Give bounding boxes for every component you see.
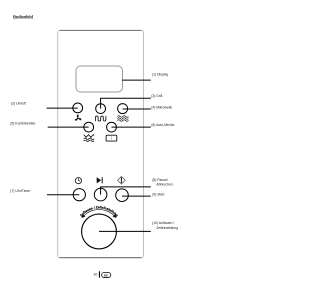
svg-text:(4) Mikrowelle: (4) Mikrowelle	[151, 105, 172, 109]
button (2) Umluft	[73, 103, 83, 113]
svg-text:DE: DE	[104, 273, 108, 277]
callout line knob	[99, 230, 151, 232]
label (2) Umluft	[11, 102, 26, 106]
callout line Grill	[101, 98, 151, 108]
panel outline	[58, 30, 144, 258]
svg-text:Abbrechen: Abbrechen	[156, 183, 173, 187]
button (6) Auto-Menü	[107, 122, 117, 132]
callout line Umluft	[47, 107, 78, 109]
knob arc with arrows and text	[79, 205, 119, 219]
svg-text:(6) Auto-Menüs: (6) Auto-Menüs	[151, 123, 174, 127]
icon auto-menu book	[106, 135, 117, 141]
svg-text:(3) Grill: (3) Grill	[151, 94, 162, 98]
callout line Start	[122, 195, 151, 197]
svg-text:(5) Kombibetrieb: (5) Kombibetrieb	[10, 122, 35, 126]
callout line Kombibetrieb	[48, 126, 89, 128]
icon combination grill+microwave	[84, 135, 94, 142]
svg-text:Bedienfeld: Bedienfeld	[13, 14, 33, 19]
label (9) Start	[152, 192, 164, 196]
callout line display	[122, 79, 151, 81]
button (7) Uhr/Timer	[73, 189, 85, 201]
icon play/pause	[97, 177, 103, 183]
label (6) Auto-Menüs	[151, 123, 174, 127]
label (8) Pause/Abbrechen	[152, 178, 173, 187]
svg-text:(9) Start: (9) Start	[152, 192, 164, 196]
label (10) Auftauen/Zeiteinstellung	[152, 221, 178, 230]
svg-text:(7) Uhr/Timer: (7) Uhr/Timer	[10, 189, 31, 193]
label (4) Mikrowelle	[151, 105, 172, 109]
callout line Auto-Menü	[112, 126, 151, 128]
svg-text:(1) Display: (1) Display	[152, 73, 169, 77]
svg-text:Zeiteinstellung: Zeiteinstellung	[156, 226, 178, 230]
icon fan Umluft	[75, 115, 82, 122]
button (9) Start	[116, 189, 129, 202]
label (7) Uhr/Timer	[10, 189, 31, 193]
button (8) Pause/Abbrechen	[94, 188, 107, 201]
label (5) Kombibetrieb	[10, 122, 35, 126]
svg-text:10: 10	[93, 273, 97, 277]
icon clock	[75, 178, 81, 184]
footer divider bar	[99, 271, 100, 277]
icon grill element	[96, 116, 106, 121]
svg-text:(2) Umluft: (2) Umluft	[11, 102, 26, 106]
title Bedienfeld	[13, 14, 33, 19]
button (5) Kombibetrieb	[84, 122, 94, 132]
footer language oval DE	[102, 272, 111, 277]
label (3) Grill	[151, 94, 162, 98]
button (3) Grill	[96, 104, 106, 114]
label (1) Display	[152, 73, 169, 77]
display (1)	[76, 66, 123, 92]
icon start diamond	[118, 176, 126, 184]
callout line Pause/Abbrechen	[101, 187, 151, 195]
callout line Uhr/Timer	[47, 194, 79, 196]
rotary knob (10)	[82, 214, 117, 249]
callout line Mikrowelle	[123, 108, 151, 110]
svg-text:(8) Pause/: (8) Pause/	[152, 178, 168, 182]
button (4) Mikrowelle	[118, 104, 128, 114]
icon microwave waves	[117, 116, 128, 122]
svg-text:(10) Auftauen /: (10) Auftauen /	[152, 221, 174, 225]
footer page number 10	[93, 273, 97, 277]
